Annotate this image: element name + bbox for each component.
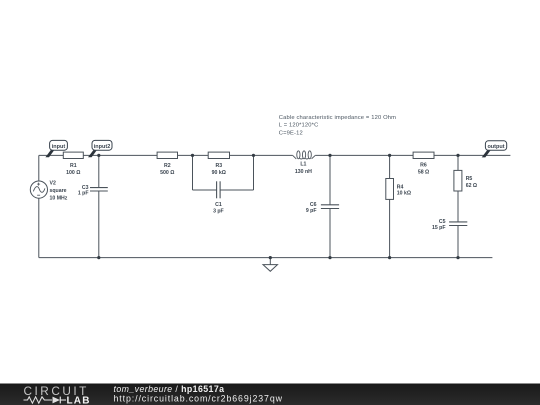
node dot R3 left <box>191 154 194 157</box>
R6 label <box>418 162 429 175</box>
svg-text:100 Ω: 100 Ω <box>66 170 80 176</box>
wire C3 branch upper <box>98 155 100 187</box>
L1 label <box>295 161 312 175</box>
node dot C3 top <box>97 154 100 157</box>
wire R4 branch lower <box>389 199 391 257</box>
voltage source V2 <box>30 181 47 198</box>
wire R3 parallel loop left <box>193 155 217 190</box>
footer url line <box>114 394 283 404</box>
svg-text:130 nH: 130 nH <box>295 169 312 175</box>
svg-text:15 pF: 15 pF <box>432 225 446 231</box>
resistor R5 <box>454 170 462 191</box>
capacitor C5 <box>449 222 467 226</box>
ground <box>263 258 278 272</box>
svg-text:9 pF: 9 pF <box>306 208 317 214</box>
wire left rail above V2 <box>38 155 40 181</box>
svg-text:http://circuitlab.com/cr2b669j: http://circuitlab.com/cr2b669j237qw <box>114 394 283 404</box>
C5 label <box>432 219 446 231</box>
svg-text:R2: R2 <box>164 163 171 169</box>
svg-text:R3: R3 <box>215 163 222 169</box>
svg-text:3 pF: 3 pF <box>213 208 224 214</box>
wire top rail R3 to L1 <box>230 154 293 156</box>
flag input2 <box>88 140 112 157</box>
capacitor C6 <box>321 205 339 209</box>
logo diode <box>53 397 67 404</box>
C3 label <box>78 185 89 197</box>
svg-text:10 MHz: 10 MHz <box>50 196 68 202</box>
R2 label <box>160 163 174 176</box>
resistor R4 <box>386 179 394 200</box>
svg-text:1 pF: 1 pF <box>78 191 89 197</box>
svg-text:10 kΩ: 10 kΩ <box>397 191 411 197</box>
wire top rail R6 to right end <box>434 154 510 156</box>
svg-text:tom_verbeure / hp16517a: tom_verbeure / hp16517a <box>114 384 225 394</box>
svg-text:LAB: LAB <box>67 395 91 405</box>
node dot R4 top <box>388 154 391 157</box>
svg-text:L = 120*120*C: L = 120*120*C <box>279 123 319 129</box>
wire C3 branch lower <box>98 191 100 258</box>
footer author line <box>114 384 225 394</box>
svg-text:R5: R5 <box>466 176 473 182</box>
svg-text:L1: L1 <box>300 161 306 167</box>
inductor L1 <box>293 151 316 159</box>
V2 label <box>50 180 68 201</box>
wire R5 branch upper <box>457 155 459 170</box>
svg-text:58 Ω: 58 Ω <box>418 170 429 176</box>
svg-text:C=9E-12: C=9E-12 <box>279 130 303 136</box>
footer bar <box>0 384 540 405</box>
node dot C5 bottom <box>456 256 459 259</box>
node dot C6 top <box>328 154 331 157</box>
R3 label <box>212 163 226 176</box>
svg-text:V2: V2 <box>50 180 56 186</box>
logo CIRCUIT text <box>24 384 89 398</box>
C6 label <box>306 202 317 214</box>
wire left rail below V2 <box>38 198 40 257</box>
wire top rail R1 to R2 <box>83 154 157 156</box>
wire C6 branch lower <box>329 209 331 258</box>
svg-text:R1: R1 <box>70 163 77 169</box>
logo LAB text <box>67 395 91 405</box>
wire top rail R2 to R3 <box>178 154 209 156</box>
node dot ground <box>269 256 272 259</box>
node dot C6 bottom <box>328 256 331 259</box>
R1 label <box>66 163 80 176</box>
svg-text:R6: R6 <box>420 162 427 168</box>
R5 label <box>466 176 477 189</box>
flag input <box>45 140 67 157</box>
resistor R1 <box>63 152 83 158</box>
node dot R4 bottom <box>388 256 391 259</box>
svg-text:C5: C5 <box>439 219 446 225</box>
annotation cable note <box>279 115 396 136</box>
logo resistor zigzag <box>24 397 53 403</box>
svg-text:square: square <box>50 188 67 194</box>
svg-text:output: output <box>487 144 504 150</box>
resistor R3 <box>208 152 229 158</box>
resistor R2 <box>157 152 177 158</box>
svg-text:500 Ω: 500 Ω <box>160 170 174 176</box>
svg-text:input2: input2 <box>94 144 111 150</box>
flag output <box>482 141 507 158</box>
wire bottom rail <box>39 257 493 259</box>
svg-text:R4: R4 <box>397 184 404 190</box>
resistor R6 <box>413 152 434 158</box>
svg-text:62 Ω: 62 Ω <box>466 183 477 189</box>
svg-text:input: input <box>52 144 66 150</box>
svg-text:C1: C1 <box>215 202 222 208</box>
wire top rail L1 to R6 <box>315 154 413 156</box>
svg-text:90 kΩ: 90 kΩ <box>212 170 226 176</box>
node dot C3 bottom <box>97 256 100 259</box>
capacitor C3 <box>90 188 108 191</box>
wire C6 branch upper <box>329 155 331 204</box>
wire top rail left segment <box>39 154 64 156</box>
svg-text:C6: C6 <box>310 202 317 208</box>
wire R3 parallel loop right <box>220 155 253 190</box>
wire R4 branch upper <box>389 155 391 178</box>
node dot R5 top <box>456 154 459 157</box>
wire C5 branch lower <box>457 226 459 258</box>
wire R5 to C5 <box>457 191 459 222</box>
node dot R3 right <box>252 154 255 157</box>
C1 label <box>213 202 224 214</box>
capacitor C1 <box>217 181 221 198</box>
R4 label <box>397 184 411 196</box>
svg-text:Cable characteristic impedance: Cable characteristic impedance = 120 Ohm <box>279 115 396 121</box>
